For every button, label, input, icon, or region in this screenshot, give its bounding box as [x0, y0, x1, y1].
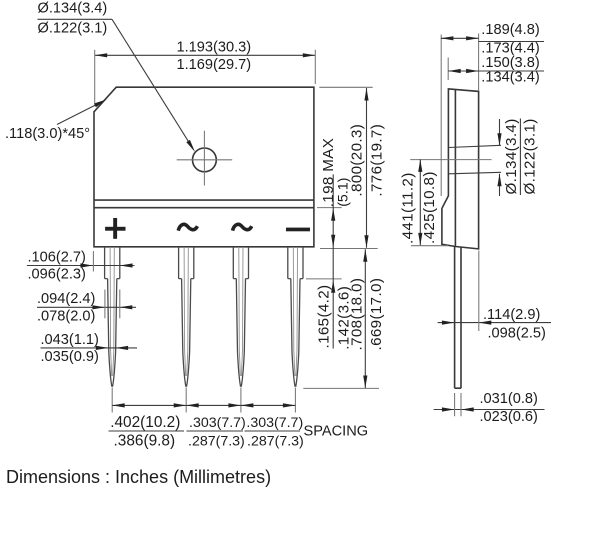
leg 1 (+ terminal lead): [105, 247, 120, 413]
lead spacing dimension line: [112, 403, 295, 407]
hole diameter label: [38, 1, 113, 37]
svg-text:.287(7.3): .287(7.3): [247, 434, 304, 450]
lead thickness dimension .031/.023: [434, 391, 545, 425]
svg-text:Ø.122(3.1): Ø.122(3.1): [521, 118, 538, 194]
svg-text:.043(1.1): .043(1.1): [41, 332, 99, 348]
svg-text:.031(0.8): .031(0.8): [480, 391, 538, 407]
svg-text:.098(2.5): .098(2.5): [488, 325, 546, 341]
lead thickness dimension .043/.035: [41, 332, 138, 365]
leg 3 (~ terminal lead): [233, 247, 248, 413]
side view hole hidden lines: [449, 145, 501, 174]
svg-text:Dimensions : Inches (Millimetr: Dimensions : Inches (Millimetres): [6, 467, 271, 487]
lead width dimension .094/.078: [37, 290, 136, 325]
chamfer leader arrowhead: [94, 100, 107, 108]
svg-text:.096(2.3): .096(2.3): [28, 267, 86, 283]
leg 2 (~ terminal lead): [179, 247, 194, 413]
side thickness dimension .189/.173: [441, 22, 544, 57]
svg-text:.386(9.8): .386(9.8): [114, 433, 176, 450]
svg-text:.303(7.7): .303(7.7): [189, 415, 246, 431]
minus terminal symbol: [286, 228, 310, 232]
svg-text:.106(2.7): .106(2.7): [28, 249, 86, 265]
svg-text:.165(4.2): .165(4.2): [315, 285, 332, 349]
spacing value .402/.386: [109, 414, 185, 450]
side view top extension lines: [441, 34, 478, 197]
lead offset dimension .114/.098: [438, 251, 551, 342]
svg-text:.189(4.8): .189(4.8): [481, 22, 539, 38]
terminal strip separator lines: [94, 200, 314, 208]
hole leader line: [112, 19, 191, 145]
leg length dimension .708/.669: [349, 249, 386, 388]
svg-text:Ø.134(3.4): Ø.134(3.4): [503, 118, 520, 194]
hole leader arrowhead: [186, 140, 195, 152]
svg-text:1.193(30.3): 1.193(30.3): [177, 39, 252, 55]
body height dimension .800/.776: [348, 88, 385, 248]
svg-text:.776(19.7): .776(19.7): [368, 124, 385, 197]
svg-text:.023(0.6): .023(0.6): [480, 409, 538, 425]
svg-text:.114(2.9): .114(2.9): [483, 307, 540, 323]
svg-text:.303(7.7): .303(7.7): [246, 415, 303, 431]
svg-text:.035(0.9): .035(0.9): [41, 349, 99, 365]
side thickness dimension .150/.134: [448, 55, 544, 86]
lead width dimension .106/.096: [27, 249, 135, 282]
AC tilde symbol 2: [233, 224, 252, 230]
svg-text:.118(3.0)*45°: .118(3.0)*45°: [5, 126, 90, 142]
chamfer leader line: [57, 104, 98, 125]
svg-text:.800(20.3): .800(20.3): [348, 124, 365, 197]
svg-text:.425(10.8): .425(10.8): [421, 171, 438, 244]
svg-text:.441(11.2): .441(11.2): [399, 172, 416, 244]
side view inner face line: [454, 90, 456, 246]
plus terminal symbol: [105, 218, 125, 239]
mounting hole circle: [193, 148, 217, 172]
leg 4 (- terminal lead): [288, 247, 303, 413]
svg-text:Ø.134(3.4): Ø.134(3.4): [38, 1, 108, 17]
svg-text:.402(10.2): .402(10.2): [110, 414, 180, 431]
spacing value .303/.287 first: [187, 415, 246, 450]
right side extension lines: [303, 87, 379, 388]
svg-text:.669(17.0): .669(17.0): [368, 278, 385, 351]
AC tilde symbol 1: [178, 224, 197, 230]
hole position dimension .441/.425: [399, 159, 448, 245]
svg-text:.078(2.0): .078(2.0): [37, 308, 95, 324]
svg-text:.134(3.4): .134(3.4): [481, 69, 539, 85]
svg-text:Ø.122(3.1): Ø.122(3.1): [38, 20, 108, 36]
svg-text:.287(7.3): .287(7.3): [188, 434, 245, 450]
svg-text:.708(18.0): .708(18.0): [349, 278, 366, 351]
svg-text:SPACING: SPACING: [304, 423, 369, 439]
svg-text:.094(2.4): .094(2.4): [37, 291, 95, 307]
strip height dimension .198 MAX: [320, 138, 351, 349]
body width dimension 1.193/1.169: [95, 39, 316, 103]
side view hole center line: [410, 159, 491, 161]
spacing value .303/.287 second: [245, 415, 304, 450]
hole crosshair centerlines: [177, 131, 233, 186]
side view body outline: [442, 89, 479, 249]
side view lead: [455, 247, 461, 388]
leg shoulder dimension .165/.142: [315, 285, 352, 350]
side hole diameter label: [497, 118, 538, 196]
front view body outline with chamfered corner: [94, 87, 314, 247]
svg-text:1.169(29.7): 1.169(29.7): [177, 57, 252, 73]
